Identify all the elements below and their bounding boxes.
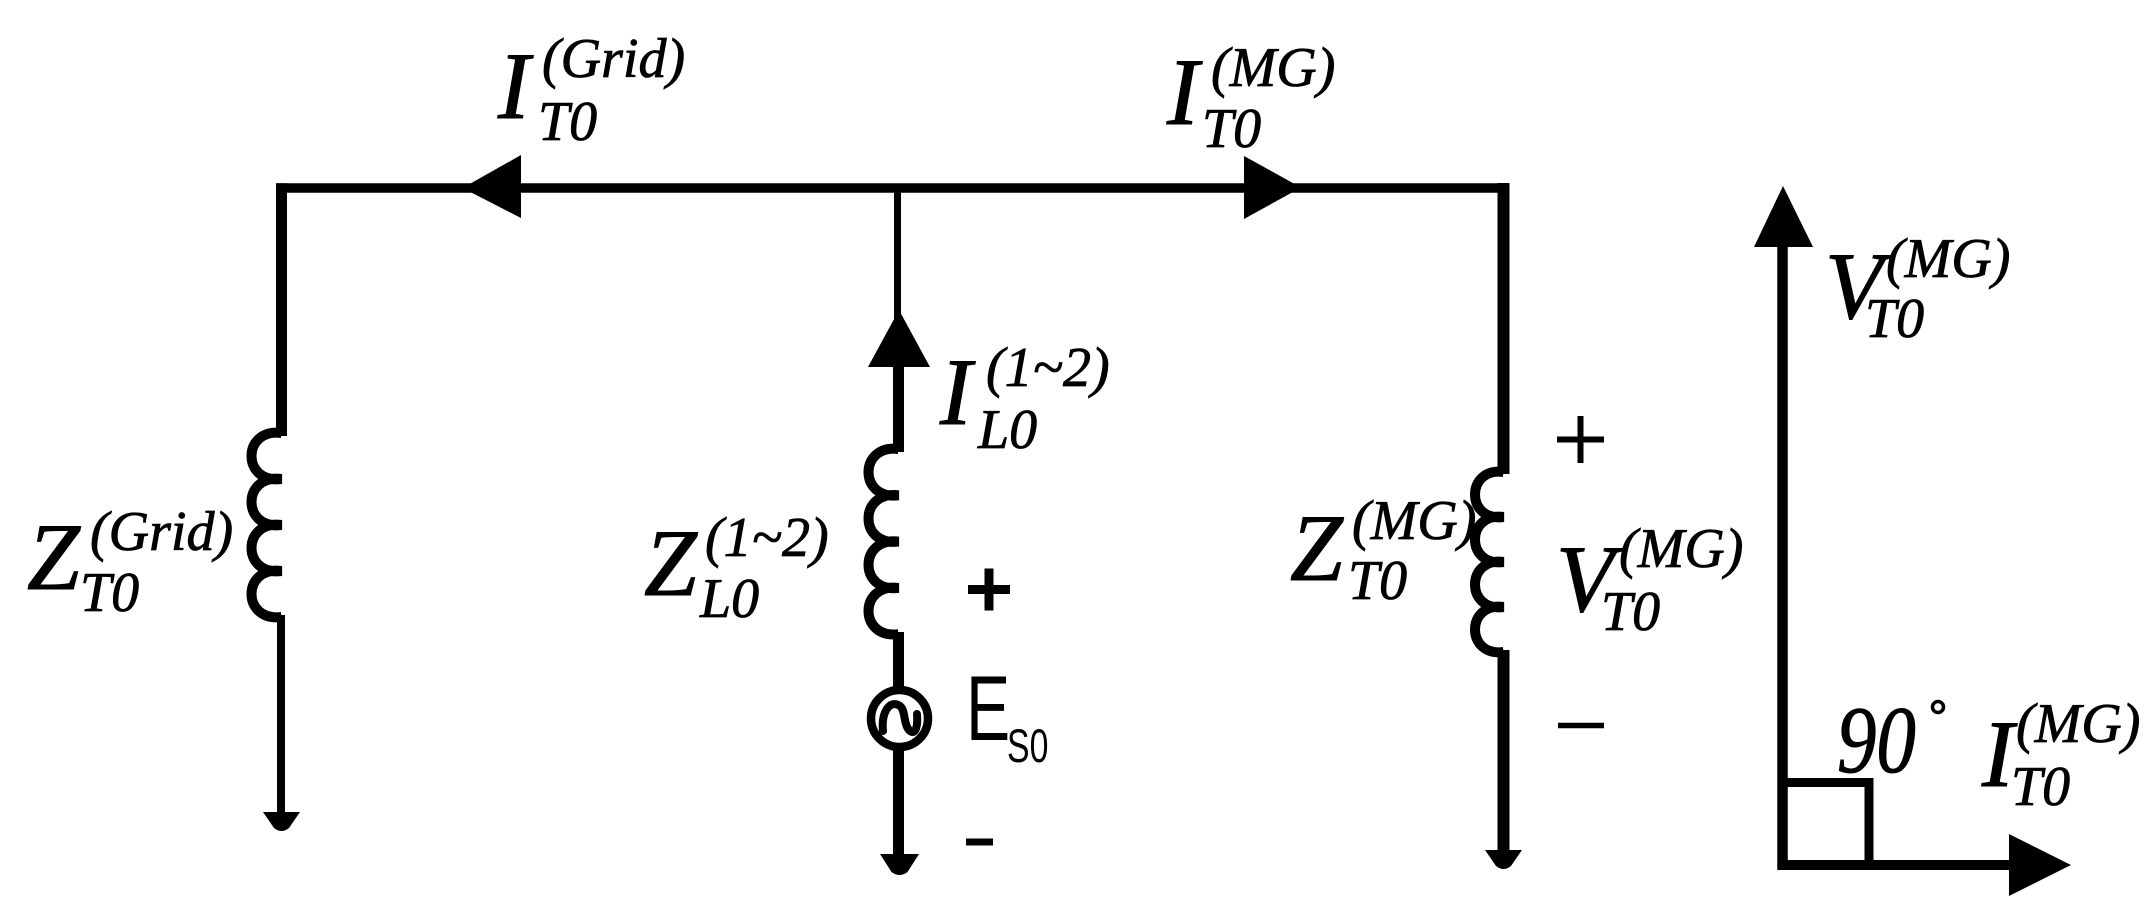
label I_L0(1~2) xyxy=(939,337,1110,461)
AC source E_S0 sine squiggle xyxy=(883,704,917,732)
svg-text:I: I xyxy=(939,339,976,445)
phasor right-angle 90 degree marker square xyxy=(1784,783,1869,865)
svg-text:T0: T0 xyxy=(1865,288,1924,350)
plus sign right branch xyxy=(1557,416,1604,463)
AC source E_S0 circle xyxy=(871,690,928,747)
arrow I_T0(Grid) current arrow on top bus pointing left xyxy=(463,155,522,218)
svg-text:T0: T0 xyxy=(80,562,139,624)
label E_S0 xyxy=(966,656,1048,772)
wire left branch lower lead xyxy=(277,615,285,818)
svg-text:Z: Z xyxy=(644,510,698,616)
svg-text:E: E xyxy=(966,656,1010,759)
label Z_L0(1~2) xyxy=(644,507,829,630)
phasor V arrowhead pointing up xyxy=(1754,186,1813,247)
phasor V axis vertical line xyxy=(1777,245,1788,870)
wire right branch lower lead xyxy=(1498,650,1510,853)
svg-text:(Grid): (Grid) xyxy=(542,28,685,90)
wire top bus from left branch to right branch xyxy=(277,183,1510,193)
inductor Z_T0(Grid) coil xyxy=(252,433,282,618)
label Z_T0(MG) xyxy=(1290,490,1476,612)
svg-text:L0: L0 xyxy=(977,399,1037,461)
left branch terminal arrow pointing down xyxy=(263,812,300,831)
svg-text:(MG): (MG) xyxy=(1211,37,1335,99)
svg-text:(MG): (MG) xyxy=(1886,228,2010,290)
svg-text:T0: T0 xyxy=(538,91,597,153)
wire middle branch between arrow and coil xyxy=(893,360,904,452)
svg-text:I: I xyxy=(497,33,534,139)
middle branch terminal arrow pointing down xyxy=(880,854,919,875)
svg-text:(Grid): (Grid) xyxy=(90,501,233,563)
arrow I_L0(1~2) current arrow pointing up xyxy=(868,310,930,367)
svg-text:T0: T0 xyxy=(1202,98,1261,160)
right branch terminal arrow pointing down xyxy=(1485,850,1522,869)
svg-text:Z: Z xyxy=(27,504,81,610)
svg-text:(1~2): (1~2) xyxy=(705,507,829,569)
label V_T0(MG) phasor xyxy=(1825,228,2010,350)
label Z_T0(Grid) xyxy=(27,501,233,624)
wire middle branch source to terminal xyxy=(893,746,904,856)
svg-text:90: 90 xyxy=(1837,687,1916,793)
minus sign middle branch xyxy=(966,839,993,846)
svg-text:T0: T0 xyxy=(1601,581,1660,643)
phasor I arrowhead pointing right xyxy=(2009,834,2071,896)
label I_T0(MG) top xyxy=(1166,37,1335,160)
wire middle branch upper lead xyxy=(894,192,901,330)
wire middle branch coil to source xyxy=(893,632,904,692)
svg-text:Z: Z xyxy=(1290,495,1344,601)
label 90 degrees phasor angle xyxy=(1837,687,1944,793)
label V_T0(MG) circuit xyxy=(1556,518,1743,643)
inductor Z_T0(MG) coil xyxy=(1475,472,1504,653)
svg-text:I: I xyxy=(1166,39,1203,145)
svg-text:(1~2): (1~2) xyxy=(986,337,1110,399)
inductor Z_L0(1~2) coil xyxy=(869,449,899,635)
wire right branch vertical upper lead xyxy=(1498,183,1510,474)
svg-text:S0: S0 xyxy=(1007,720,1048,773)
svg-text:T0: T0 xyxy=(2011,756,2070,818)
minus sign right branch xyxy=(1558,723,1604,729)
svg-text:L0: L0 xyxy=(699,568,759,630)
plus sign middle branch xyxy=(968,569,1010,611)
svg-text:T0: T0 xyxy=(1348,550,1407,612)
label I_T0(Grid) xyxy=(497,28,685,153)
phasor I axis horizontal line xyxy=(1778,860,2013,870)
svg-text:(MG): (MG) xyxy=(2016,693,2140,755)
arrow I_T0(MG) current arrow on top bus pointing right xyxy=(1244,156,1301,219)
svg-text:(MG): (MG) xyxy=(1352,490,1476,552)
wire left branch vertical upper lead xyxy=(276,183,287,436)
svg-text:(MG): (MG) xyxy=(1619,518,1743,580)
label I_T0(MG) phasor xyxy=(1981,693,2140,818)
